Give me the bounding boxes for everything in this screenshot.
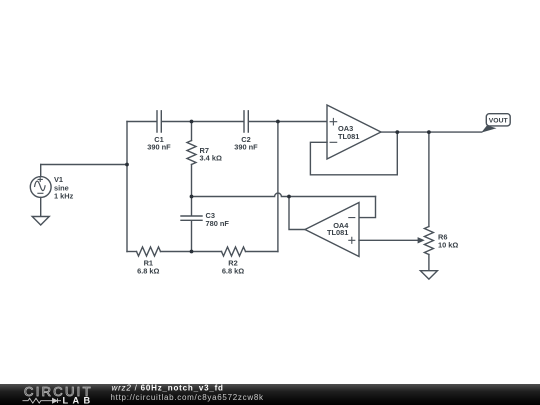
wire R7 bottom lead <box>191 165 193 197</box>
label C2 value <box>234 135 258 152</box>
node junction V1 rail <box>125 163 129 167</box>
VOUT flag <box>481 114 510 133</box>
resistor R1 <box>137 247 161 256</box>
footer bar <box>0 384 540 405</box>
svg-text:10 kΩ: 10 kΩ <box>438 240 458 249</box>
wire bottom rail R1 to R2 <box>161 251 222 253</box>
svg-text:390 nF: 390 nF <box>147 143 171 152</box>
svg-text:http://circuitlab.com/c8ya6572: http://circuitlab.com/c8ya6572zcw8k <box>111 393 265 402</box>
wire middle rail with hop over vertical <box>192 193 376 196</box>
label R1 value <box>137 259 159 276</box>
wire C3 bottom lead <box>191 221 193 252</box>
wire R7 top lead <box>191 122 193 141</box>
capacitor C3 <box>181 216 202 220</box>
R6 wiper arrowhead <box>418 237 425 243</box>
wire bottom rail R2 to right vertical <box>246 251 278 253</box>
node junction bottom rail at C3 <box>190 250 194 254</box>
node junction middle rail at OA4 output <box>287 195 291 199</box>
op-amp OA3 <box>327 105 381 159</box>
resistor R7 <box>187 141 196 165</box>
wire V1 bottom lead <box>40 197 42 216</box>
node junction OA3 output to R6 <box>427 130 431 134</box>
label C1 value <box>147 135 171 152</box>
svg-text:VOUT: VOUT <box>489 118 509 125</box>
svg-text:3.4 kΩ: 3.4 kΩ <box>200 154 222 163</box>
capacitor C1 <box>157 111 161 132</box>
node junction top rail at right vertical <box>276 120 280 124</box>
capacitor C2 <box>244 111 248 132</box>
wire top rail C2 to OA3 <box>249 121 327 123</box>
svg-text:780 nF: 780 nF <box>206 219 230 228</box>
svg-text:6.8 kΩ: 6.8 kΩ <box>137 267 159 276</box>
label V1 value <box>54 175 74 200</box>
wire OA3 output <box>381 131 482 133</box>
node junction OA3 output feedback <box>395 130 399 134</box>
svg-text:wrz2 / 60Hz_notch_v3_fd: wrz2 / 60Hz_notch_v3_fd <box>112 384 224 393</box>
label OA3 <box>338 124 359 141</box>
ground for R6 <box>420 271 437 279</box>
svg-text:1 kHz: 1 kHz <box>54 191 74 200</box>
wire OA4 minus input from middle rail <box>359 197 376 218</box>
node junction top rail at R7 <box>190 120 194 124</box>
wire R6 top lead <box>428 132 430 226</box>
label OA4 <box>327 221 349 237</box>
wire OA3 feedback loop <box>310 132 397 175</box>
ground for V1 <box>32 217 49 226</box>
wire R6 bottom lead <box>428 255 430 271</box>
label R2 value <box>222 259 244 276</box>
wire top rail left segment <box>127 121 157 123</box>
wire left vertical <box>126 122 128 252</box>
op-amp OA4 <box>305 203 359 257</box>
logo resistor-diode glyph <box>23 398 62 403</box>
wire OA4 output loop to middle rail <box>289 197 305 230</box>
wire C3 top lead <box>191 197 193 216</box>
wire bottom rail left segment <box>127 251 137 253</box>
potentiometer R6 <box>424 227 433 255</box>
wire top rail C1 to C2 <box>162 121 244 123</box>
svg-text:TL081: TL081 <box>327 228 348 237</box>
wire OA4 plus input to R6 wiper <box>359 239 419 241</box>
node junction middle rail at R7/C3 <box>190 195 194 199</box>
wire V1 top lead <box>40 165 42 177</box>
voltage source V1 <box>30 177 51 198</box>
wire right vertical <box>277 122 279 252</box>
svg-text:6.8 kΩ: 6.8 kΩ <box>222 267 244 276</box>
resistor R2 <box>222 247 246 256</box>
label C3 value <box>206 211 230 228</box>
svg-text:LAB: LAB <box>63 395 95 405</box>
svg-text:TL081: TL081 <box>338 132 359 141</box>
label R6 value <box>438 233 458 250</box>
label R7 value <box>200 146 222 163</box>
wire V1 to left vertical <box>41 164 127 166</box>
svg-text:390 nF: 390 nF <box>234 143 258 152</box>
